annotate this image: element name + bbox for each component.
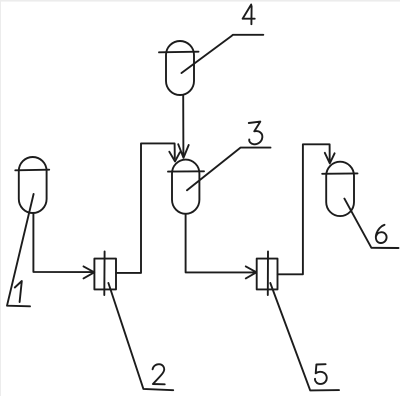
arrowhead into vessel 6 (325, 153, 335, 164)
scan border top (0, 0, 400, 2)
pump 5 (257, 251, 278, 295)
label 3 digit (249, 122, 263, 145)
pipe vessel4 to vessel3 (wire) (182, 96, 184, 156)
pipe vessel1 to pump2 (wire) (33, 214, 92, 273)
vessel 1 (15, 157, 49, 213)
label 4 digit (243, 5, 255, 25)
vessel 3 (168, 160, 204, 214)
label 5 digit (315, 364, 327, 384)
label 4 leader (182, 35, 264, 73)
arrowhead into pump 2 (84, 266, 95, 278)
label 2 digit (153, 364, 165, 384)
vessel 6 (322, 162, 357, 216)
scan border left (0, 0, 1, 396)
vessel 4 (159, 41, 199, 95)
label 3 leader (187, 148, 271, 191)
pipe vessel3 to pump5 (wire) (186, 214, 254, 273)
label 2 leader (108, 283, 173, 390)
arrowhead into pump 5 (246, 266, 257, 278)
label 6 digit (376, 225, 387, 243)
label 5 leader (270, 283, 339, 390)
label 1 leader (7, 194, 34, 306)
label 6 leader (344, 199, 398, 248)
pipe pump2 up and over to vessel 3 (wire) (116, 143, 175, 273)
pipe pump5 up and over to vessel 6 (wire) (278, 144, 330, 274)
pump 2 (94, 251, 116, 295)
arrowhead into vessel 3 from recycle line (169, 152, 180, 162)
arrowhead into vessel 3 from vessel 4 (178, 144, 189, 158)
label 1 digit (15, 281, 22, 302)
